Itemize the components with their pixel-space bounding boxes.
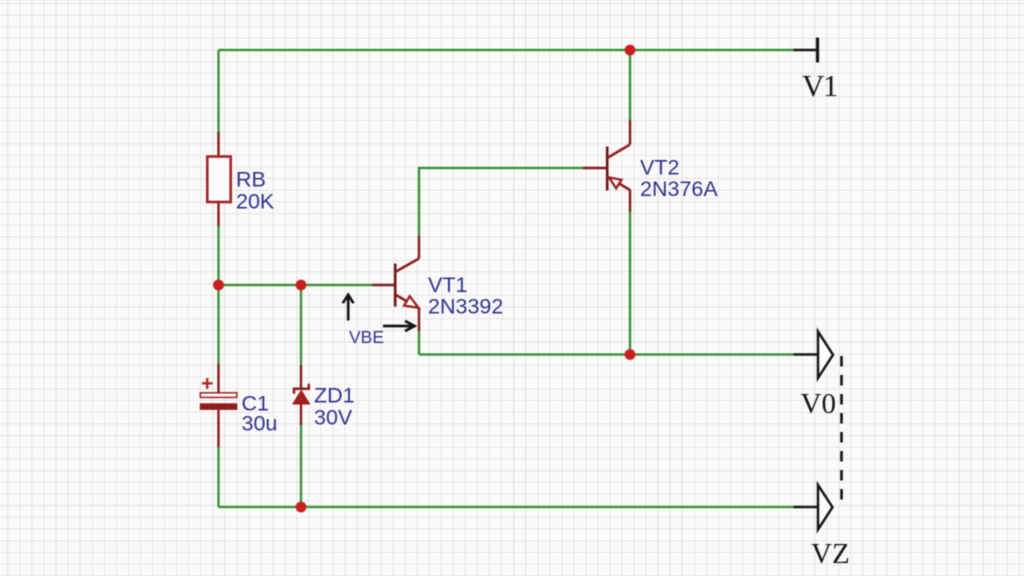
terminal V0: [794, 332, 834, 379]
wire VT2 base red: [583, 167, 606, 169]
svg-text:VZ: VZ: [811, 538, 850, 570]
terminal VZ: [794, 485, 833, 530]
wire C1 top: [217, 285, 219, 365]
svg-text:2N3392: 2N3392: [428, 295, 503, 319]
wire ZD1 top: [300, 285, 302, 366]
transistor VT2: [607, 120, 630, 212]
label VT2 2N376A: [640, 156, 718, 202]
svg-text:V0: V0: [801, 388, 836, 420]
zener diode ZD1: [293, 365, 310, 426]
svg-text:VBE: VBE: [349, 327, 384, 347]
wire C1 bottom: [217, 447, 219, 507]
transistor VT1: [395, 236, 419, 332]
junction top rail VT2: [625, 45, 636, 56]
label C1 30u: [242, 392, 278, 436]
wire RB bottom: [217, 226, 219, 285]
svg-text:VT1: VT1: [428, 273, 467, 297]
wire VT2 emitter down: [629, 212, 631, 355]
resistor RB: [207, 132, 230, 227]
wire VT1 emitter down: [418, 331, 420, 355]
arrow VBE right: [383, 321, 415, 331]
wire top rail: [219, 49, 794, 51]
junction bottom rail ZD1: [296, 502, 307, 513]
svg-text:30V: 30V: [314, 406, 353, 430]
wire VT2 collector top: [629, 50, 631, 120]
terminal V1: [794, 38, 818, 63]
wire ZD1 bottom: [300, 425, 302, 507]
label RB 20K: [236, 168, 275, 214]
svg-text:2N376A: 2N376A: [640, 177, 718, 201]
svg-text:30u: 30u: [242, 412, 278, 436]
junction V0 rail VT2 emitter: [625, 349, 636, 360]
svg-text:ZD1: ZD1: [314, 384, 355, 408]
wire bottom rail: [219, 506, 794, 508]
wire RB top: [217, 50, 219, 133]
svg-text:20K: 20K: [236, 190, 275, 214]
svg-text:RB: RB: [236, 168, 266, 192]
dashed link V0 to VZ: [840, 356, 843, 507]
capacitor C1: [200, 364, 238, 448]
wire V0 rail: [419, 353, 794, 355]
wire VT1 collector to VT2 base: [419, 168, 584, 236]
wire VT1 base: [372, 284, 394, 286]
label VT1 2N3392: [428, 273, 503, 319]
label ZD1 30V: [314, 384, 355, 430]
wire node rail: [219, 284, 373, 286]
junction node RB/C1: [213, 280, 224, 291]
svg-text:V1: V1: [802, 68, 837, 103]
junction node ZD1 tap: [296, 280, 307, 291]
svg-text:VT2: VT2: [640, 156, 679, 180]
arrow VBE up: [343, 295, 354, 321]
